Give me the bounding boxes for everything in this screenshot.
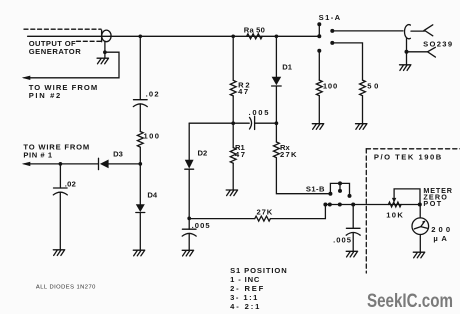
generator plug dashed shield top [24, 28, 101, 30]
wire D3 to D4 node [109, 163, 141, 165]
node D1/Rx/.005 [275, 121, 279, 125]
svg-text:SO239: SO239 [423, 39, 452, 48]
node D2 / 27K / .005 [187, 217, 191, 221]
wire D2 branch down [188, 123, 190, 160]
wire R1 to ground [232, 163, 234, 190]
svg-text:D3: D3 [113, 150, 123, 159]
ground below R1 [226, 190, 237, 196]
node pot/meter junction [418, 203, 422, 207]
switch S1-B [328, 181, 351, 198]
meter M1 200uA [412, 218, 429, 235]
connector SO239 lower chevron [428, 47, 436, 57]
wire S1-A to SO239 [332, 30, 403, 32]
switch S1-A [317, 22, 334, 53]
node main bus / C-R chain [138, 34, 142, 38]
ground below right .005 [346, 251, 357, 257]
wire S1-A to 50 ohm [332, 43, 362, 80]
ground below D2 .005 [182, 250, 193, 256]
wire capacitor to resistor 100 [139, 104, 141, 132]
wire 50 to ground [362, 96, 364, 124]
svg-text:PIN # 1: PIN # 1 [23, 151, 52, 160]
wire cap to ground (left .02) [59, 192, 61, 250]
svg-text:Ra 50: Ra 50 [244, 25, 265, 34]
wire S1-A to 100 ohm [318, 51, 320, 80]
node rail 3 [338, 203, 342, 207]
wire rail down to 27K row [270, 205, 325, 219]
resistor R2 47 [230, 80, 236, 96]
wire Rx to S1-B contact [276, 158, 330, 194]
resistor 50 [360, 80, 366, 96]
svg-text:SeekIC.com: SeekIC.com [367, 290, 453, 312]
svg-text:D4: D4 [147, 191, 157, 200]
capacitor .005 (below D2) [182, 229, 196, 236]
diode D4 [136, 204, 145, 212]
wire shield to pin2 arrow [24, 52, 119, 78]
wire node to Rx [275, 123, 277, 142]
svg-text:3- 1:1: 3- 1:1 [230, 293, 258, 302]
dashed box P/O TEK 190B [366, 149, 460, 273]
wire R2 to node [232, 96, 234, 123]
wire node down to .02 cap left [59, 164, 61, 188]
node pin1 / .02 cap [59, 162, 63, 166]
capacitor .005 (right) [346, 228, 360, 235]
wire bus down to R2 [232, 36, 234, 80]
arrow to wire from pin 1 [22, 162, 31, 166]
svg-text:1 - INC: 1 - INC [230, 275, 260, 284]
svg-text:µA: µA [433, 234, 447, 243]
svg-text:GENERATOR: GENERATOR [29, 47, 82, 56]
svg-text:P/O TEK 190B: P/O TEK 190B [374, 153, 442, 162]
resistor Ra 50 [247, 34, 263, 39]
node rail 4 [351, 203, 355, 207]
svg-text:.005: .005 [192, 221, 211, 230]
node rail 2 [328, 203, 332, 207]
wire junction to meter [419, 205, 421, 218]
node shield junction [103, 50, 107, 54]
diode D2 [185, 160, 194, 169]
resistor 27K (horizontal) [255, 216, 271, 221]
svg-text:ALL DIODES 1N270: ALL DIODES 1N270 [36, 285, 96, 291]
wire cap to ground (D2 branch) [188, 233, 190, 250]
capacitor .02 (mid) [133, 100, 147, 107]
wire main bus to S1-A [110, 35, 319, 37]
diode D3 [99, 158, 109, 169]
wire resistor to D3 node [139, 147, 141, 164]
svg-text:.02: .02 [146, 89, 159, 98]
svg-text:50: 50 [367, 82, 378, 91]
wire connector shield drop [104, 42, 106, 58]
svg-text:4- 2:1: 4- 2:1 [230, 302, 260, 311]
svg-text:D1: D1 [282, 62, 292, 71]
connector SO239 body [405, 25, 411, 39]
wire bus down to capacitor .02 [139, 36, 141, 99]
wire node down to D4 [139, 164, 141, 204]
wire 100 to ground [318, 96, 320, 124]
capacitor .02 (left) [53, 188, 67, 195]
svg-text:2- REF: 2- REF [230, 284, 264, 293]
svg-text:S1-B: S1-B [306, 185, 325, 194]
diode D1 [272, 77, 282, 86]
node R2/R1/.005 [231, 121, 235, 125]
capacitor .005 (top row) [250, 116, 255, 129]
ground below left .02 [53, 250, 64, 256]
svg-text:47: 47 [235, 150, 245, 159]
svg-text:S1 POSITION: S1 POSITION [230, 266, 287, 275]
ground at generator shield [97, 58, 108, 64]
svg-text:200: 200 [431, 225, 450, 234]
svg-text:10K: 10K [386, 210, 403, 219]
svg-text:.005: .005 [333, 235, 352, 244]
resistor 100 (right) [316, 80, 322, 96]
wire D4 to ground [139, 213, 141, 251]
node main bus / R2 [231, 34, 235, 38]
wire shield to lower chevron [407, 51, 428, 53]
wire bus down to D1 [275, 36, 277, 76]
wire cap to D1 node [255, 122, 277, 124]
generator plug dashed shield bottom [77, 40, 102, 42]
wire S1-B pole rail [325, 204, 419, 206]
node rail left [323, 203, 327, 207]
ground below 100 [312, 124, 323, 130]
wire center conductor from generator [28, 35, 110, 37]
wiper arm of 10K pot [392, 189, 420, 205]
wire pin1 arrow line [24, 163, 99, 165]
resistor Rx 27K [274, 142, 280, 158]
svg-text:.005: .005 [249, 108, 270, 117]
resistor 100 (mid) [137, 132, 143, 148]
ground below meter [413, 252, 424, 258]
ground below D4 [133, 250, 144, 256]
potentiometer 10K [388, 202, 401, 207]
wire .005 cap row from D2 corner to R chain [189, 122, 249, 124]
wire 27K to D2 node [189, 218, 255, 220]
svg-text:D2: D2 [198, 149, 208, 158]
wire cap to ground (right .005) [352, 233, 354, 252]
wire meter to ground [419, 235, 421, 253]
svg-text:POT: POT [423, 199, 441, 208]
resistor R1 47 [230, 148, 236, 164]
arrow to wire from pin 2 [22, 76, 31, 80]
wire D1 to node [275, 86, 277, 123]
wire D2 to 27K node [188, 169, 190, 229]
svg-text:PIN #2: PIN #2 [29, 91, 61, 100]
svg-text:.02: .02 [65, 179, 76, 188]
connector J1 generator plug [102, 30, 112, 42]
wire node to R1 [232, 123, 234, 147]
ground below 50 [356, 124, 367, 130]
connector SO239 upper chevron [424, 25, 433, 36]
svg-text:100: 100 [144, 132, 160, 141]
ground below SO239 [400, 65, 411, 71]
svg-text:27K: 27K [280, 150, 297, 159]
svg-text:100: 100 [323, 82, 337, 91]
wire rail down to .005 (right) [352, 205, 354, 229]
wire SO239 shield drop [406, 39, 408, 65]
wire SO239 center to chevron [411, 30, 424, 32]
node SO239 shield [405, 50, 409, 54]
node D3/D4/100 junction [138, 162, 142, 166]
svg-text:S1-A: S1-A [319, 13, 341, 22]
node main bus / D1 [275, 34, 279, 38]
svg-text:47: 47 [238, 87, 248, 96]
svg-text:27K: 27K [257, 208, 273, 217]
